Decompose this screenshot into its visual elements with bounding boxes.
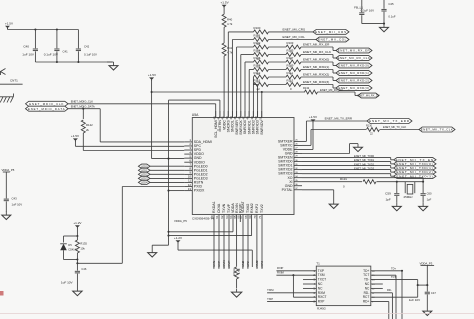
node junction: [292, 274, 294, 276]
svg-text:TXP: TXP: [318, 269, 324, 273]
svg-text:ENET_MII_TXD3: ENET_MII_TXD3: [354, 167, 375, 171]
wire: [5, 174, 7, 198]
svg-text:ENET_MII_RX_CLK: ENET_MII_RX_CLK: [338, 56, 371, 60]
wire ENET_MII_TX_CLK: [302, 130, 366, 146]
net label TXIP: [267, 297, 273, 301]
resistor R122: [81, 120, 93, 133]
svg-text:R102: R102: [254, 41, 261, 45]
svg-text:RXP2: RXP2: [260, 261, 264, 269]
svg-text:10k: 10k: [80, 247, 85, 251]
svg-text:RXM2: RXM2: [250, 203, 254, 213]
wire ENET_MII_TXD(1): [302, 166, 394, 168]
wire: [301, 47, 336, 51]
svg-text:ENET_MII_RX_ER: ENET_MII_RX_ER: [303, 43, 330, 47]
capacitor C41: [44, 30, 68, 63]
net label ENET_MII_TX_ERR: [325, 117, 353, 121]
svg-text:C59: C59: [385, 191, 391, 195]
wire RXIM: [276, 274, 316, 276]
wire RD+: [371, 302, 389, 319]
op-amp U5 body: [192, 118, 294, 215]
net label ENET_MII_TXD2: [354, 162, 375, 166]
wire: [152, 80, 185, 159]
ground: [148, 249, 157, 257]
net label ENET_MDIO_CLK: [71, 100, 94, 104]
wire: [77, 260, 122, 264]
net tag ENET_MDIO: [26, 106, 69, 111]
net label ENET_MII_CRS: [283, 28, 306, 32]
svg-text:R101: R101: [254, 34, 261, 38]
wire: [168, 100, 170, 236]
wire: [303, 287, 316, 289]
wire MDC: [68, 104, 216, 118]
power +1V5 top: [221, 1, 230, 8]
svg-text:RXIP: RXIP: [277, 266, 283, 270]
wire TXIP: [267, 301, 316, 303]
net tag LED4: [138, 180, 150, 184]
net label ENET_MII_RXD(1): [303, 65, 329, 69]
svg-text:C40: C40: [23, 45, 29, 49]
resistor R107: [286, 56, 301, 68]
svg-text:RD-: RD-: [364, 291, 370, 295]
net tag ENET_MII_RXD(0): [336, 63, 372, 68]
wire ENET_MII_TXD(0): [302, 162, 394, 164]
wire ENET_MII_TX_ERR: [302, 121, 367, 141]
wire: [301, 62, 336, 66]
svg-text:+1.5V: +1.5V: [5, 22, 13, 26]
svg-text:R112: R112: [254, 79, 261, 83]
svg-text:TXVN: TXVN: [212, 261, 216, 269]
svg-text:RXP2: RXP2: [255, 204, 259, 213]
wire ENET_MII_RXD(0): [245, 62, 254, 118]
svg-text:R113: R113: [287, 79, 294, 83]
wire: [362, 23, 384, 25]
svg-text:ENET_MII_RXD(1): ENET_MII_RXD(1): [338, 71, 369, 75]
svg-text:RXVP: RXVP: [227, 261, 231, 269]
svg-text:D5: D5: [68, 243, 72, 247]
svg-text:R130: R130: [366, 124, 373, 127]
svg-text:ENET_MDIO_CLK: ENET_MDIO_CLK: [71, 100, 94, 104]
svg-text:RXCT: RXCT: [318, 295, 327, 299]
wire: [269, 76, 287, 78]
svg-text:CNT1: CNT1: [10, 79, 18, 83]
svg-text:ENET_MII_TXD1: ENET_MII_TXD1: [354, 158, 375, 162]
net tag ENET_MII_TXD(3): [394, 174, 436, 178]
ground: [329, 201, 338, 209]
resistor R41: [222, 43, 233, 56]
net tag ENET_MII_TXD(2): [394, 170, 436, 174]
svg-text:C46: C46: [81, 267, 86, 271]
wire: [418, 284, 428, 286]
wire RXM2: [255, 222, 259, 269]
svg-text:ENET_MII_RXD(2): ENET_MII_RXD(2): [303, 73, 329, 77]
svg-text:C45: C45: [388, 2, 394, 6]
wire: [269, 31, 314, 33]
ground: [423, 308, 432, 316]
capacitor C46: [61, 263, 87, 287]
wire: [64, 259, 78, 261]
svg-text:NC: NC: [365, 286, 370, 290]
svg-text:ENET_MII_RX_CLK: ENET_MII_RX_CLK: [303, 50, 332, 54]
ground: [2, 212, 11, 220]
wire: [302, 144, 358, 154]
wire: [82, 109, 84, 119]
svg-text:ENET_MII_TX_ERR: ENET_MII_TX_ERR: [325, 117, 353, 121]
ground: [231, 289, 241, 298]
node junction: [167, 158, 169, 192]
svg-text:ENET_MII_RXD(3): ENET_MII_RXD(3): [338, 86, 369, 90]
svg-text:TXV2: TXV2: [260, 204, 264, 213]
wire: [150, 181, 184, 183]
ground: [73, 288, 82, 296]
svg-text:TCT: TCT: [363, 273, 369, 277]
wire: [261, 92, 263, 118]
power +1V5 mid: [148, 73, 157, 80]
svg-text:RD-: RD-: [387, 288, 392, 292]
svg-text:R107: R107: [287, 56, 294, 60]
wire: [381, 0, 386, 24]
part label RJ45: [317, 306, 326, 310]
node junction: [76, 235, 78, 237]
svg-text:VDDA_P5: VDDA_P5: [2, 168, 15, 172]
svg-text:0.1uF 10V: 0.1uF 10V: [44, 53, 59, 57]
net label ENET_MII_TXD3: [354, 167, 375, 171]
net tag ENET_MII_CRS: [313, 30, 349, 35]
svg-text:TXCT: TXCT: [318, 278, 326, 282]
svg-text:LED4: LED4: [141, 181, 148, 185]
net label TXIM: [267, 288, 274, 292]
resistor R111: [286, 71, 301, 83]
resistor R103: [286, 41, 301, 53]
svg-text:R40: R40: [227, 18, 233, 22]
wire RCT: [371, 280, 418, 298]
capacitor C59: [385, 182, 399, 203]
power +1V5 left: [71, 134, 80, 141]
wire: [426, 267, 428, 292]
ground: [392, 203, 401, 211]
svg-text:C47: C47: [431, 291, 436, 295]
node junction: [82, 108, 84, 110]
node junction: [396, 181, 424, 183]
svg-text:+1.2V: +1.2V: [174, 236, 183, 240]
net label ENET_MII_RX_ER: [303, 43, 330, 47]
net tag LED3: [138, 176, 150, 180]
svg-text:C42: C42: [84, 45, 90, 49]
svg-text:T1: T1: [316, 262, 320, 266]
wire: [178, 243, 252, 267]
wire ENET_MII_COL: [232, 40, 253, 118]
wire: [301, 55, 336, 59]
wire: [303, 279, 316, 281]
svg-text:62: 62: [220, 215, 224, 219]
node junction: [417, 284, 419, 286]
resistor R110: [254, 71, 269, 83]
svg-text:R131: R131: [340, 177, 347, 181]
capacitor C43: [4, 196, 23, 212]
net tag ENET_MII_TX_ERR: [367, 119, 412, 124]
svg-text:LED0: LED0: [141, 164, 148, 168]
resistor R113: [286, 79, 301, 91]
svg-text:1uF 10V: 1uF 10V: [12, 203, 23, 207]
refdes U5A: [192, 113, 199, 117]
resistor R102: [254, 41, 269, 53]
svg-text:ENET_MII_RX_DV: ENET_MII_RX_DV: [320, 88, 343, 92]
wire RXP2: [260, 222, 264, 269]
net label RXIM: [277, 271, 284, 275]
wire RXVP: [227, 222, 231, 269]
wire: [169, 190, 185, 192]
wire RXVN: [222, 222, 226, 269]
svg-text:TXM2: TXM2: [241, 260, 245, 269]
net label ENET_MII_TX_CLK: [383, 125, 406, 129]
resistor R132: [303, 86, 318, 94]
svg-text:ENET_MII_TX_ERR: ENET_MII_TX_ERR: [369, 119, 410, 123]
wire ENET_MII_RXD(3): [254, 85, 258, 118]
net label ENET_MII_COL: [283, 35, 306, 39]
svg-text:RJ45G: RJ45G: [317, 306, 326, 310]
wire: [152, 236, 168, 246]
svg-text:67: 67: [239, 215, 243, 219]
svg-text:TXIM: TXIM: [267, 288, 274, 292]
svg-text:70: 70: [253, 215, 257, 219]
wire TXP2: [246, 222, 250, 269]
svg-text:4.7k: 4.7k: [227, 22, 233, 26]
svg-text:TXIP: TXIP: [267, 297, 273, 301]
off-page arrow: [1, 69, 6, 76]
net tag LED0: [138, 164, 150, 168]
svg-text:ENET_MII_COL: ENET_MII_COL: [283, 35, 306, 39]
svg-text:ENET_MII_RXD(0): ENET_MII_RXD(0): [338, 64, 369, 68]
wire: [64, 228, 78, 236]
svg-text:69: 69: [248, 215, 252, 219]
node junction: [426, 284, 428, 286]
node junction: [34, 28, 58, 30]
pins U5 top: [212, 111, 264, 138]
svg-text:0.1uF 10V: 0.1uF 10V: [84, 53, 97, 57]
wire TXVP: [217, 222, 221, 269]
wire: [150, 169, 184, 171]
svg-text:ENET_MII_CRS: ENET_MII_CRS: [315, 30, 347, 34]
resistor R133: [232, 222, 241, 288]
pins U5 bottom: [210, 201, 264, 222]
svg-text:R104: R104: [254, 49, 261, 53]
svg-text:ENET_MII_RXD(3): ENET_MII_RXD(3): [303, 80, 329, 84]
wire TD-: [371, 275, 396, 319]
svg-text:ENET_MII_TX_CLK: ENET_MII_TX_CLK: [421, 128, 453, 132]
svg-text:VDDAT: VDDAT: [241, 201, 245, 213]
wire: [269, 54, 287, 56]
power +1V5 right: [309, 115, 318, 122]
svg-text:TXVP: TXVP: [217, 261, 221, 269]
svg-text:TD-: TD-: [364, 278, 369, 282]
svg-text:ENET_MDIO_CLK: ENET_MDIO_CLK: [29, 102, 64, 106]
wire ENET_MII_TX_EN: [302, 158, 394, 160]
net tag ENET_MII_RXD(3): [336, 86, 372, 91]
svg-text:RXM2: RXM2: [255, 260, 259, 269]
resistor R100: [254, 26, 269, 38]
capacitor C45 label: [388, 2, 395, 18]
ground: [419, 203, 428, 211]
ground: [354, 144, 363, 152]
wire: [223, 7, 225, 14]
node junction: [167, 231, 169, 237]
net label RD-: [387, 288, 392, 292]
svg-text:1pF: 1pF: [427, 197, 432, 201]
net tag ENET_MII_RX_ER: [336, 48, 372, 53]
net label ENET_MII_TXD1: [354, 158, 375, 162]
svg-text:ENET_MDIO_DATA: ENET_MDIO_DATA: [28, 107, 66, 111]
resistor R112: [254, 79, 269, 91]
net tag ENET_MII_RX_DV: [357, 93, 379, 98]
wire: [371, 283, 383, 285]
wire ENET_MII_RX_DV row: [152, 91, 305, 93]
part number CXD9564GB: [192, 216, 214, 220]
svg-text:R132: R132: [303, 86, 310, 90]
wire: [269, 39, 317, 41]
svg-text:1uF 10V: 1uF 10V: [409, 298, 420, 302]
net tag ENET_MII_TXD(0): [394, 162, 436, 166]
pins U5 right: [278, 140, 302, 192]
svg-text:NC: NC: [318, 286, 323, 290]
svg-text:ENET_MII_RXD(1): ENET_MII_RXD(1): [303, 65, 329, 69]
wire: [223, 56, 225, 118]
svg-text:RXVN: RXVN: [222, 260, 226, 269]
wire TXIM: [267, 292, 316, 294]
net label RXIP: [277, 266, 283, 270]
wire ENET_MII_TXD(2): [302, 170, 394, 172]
wire: [269, 46, 287, 48]
net label TCT: [391, 275, 396, 279]
net label ENET_MII_RXD(0): [303, 58, 329, 62]
capacitor C44: [354, 6, 374, 24]
wire TD+: [371, 271, 402, 319]
svg-text:0.1uF 16V: 0.1uF 16V: [361, 9, 374, 13]
svg-text:RCT: RCT: [363, 295, 370, 299]
crystal X1 25MHz: [404, 182, 415, 199]
svg-text:ENET_MII_COL: ENET_MII_COL: [318, 38, 347, 42]
node junction: [151, 91, 153, 93]
svg-text:R122: R122: [86, 123, 93, 127]
wire: [83, 133, 184, 151]
svg-text:ENET_MII_TXD2: ENET_MII_TXD2: [354, 162, 375, 166]
net label VDDA_P5: [2, 168, 15, 174]
svg-text:RXDA1: RXDA1: [212, 201, 216, 213]
capacitor C42: [76, 30, 97, 63]
svg-text:TD+: TD+: [363, 269, 369, 273]
chassis ground: [0, 94, 14, 103]
power +1V2 bottom-left: [73, 221, 82, 228]
wire: [301, 70, 336, 74]
wire ENET_MII_RXD(1): [249, 70, 253, 118]
capacitor C60: [421, 182, 433, 203]
wire: [293, 275, 316, 297]
wire: [318, 92, 359, 96]
svg-text:RD+: RD+: [363, 300, 370, 304]
svg-text:C60: C60: [427, 191, 432, 195]
net tag ENET_MII_TXD(1): [394, 166, 436, 170]
wire: [269, 61, 287, 63]
node junction: [383, 23, 385, 25]
svg-text:22: 22: [257, 87, 261, 91]
svg-text:ENET_MII_TX_CLK: ENET_MII_TX_CLK: [383, 125, 406, 129]
net tag ENET_MII_TX_CLK: [419, 127, 455, 132]
transformer T1 body: [316, 266, 371, 306]
wire: [169, 100, 220, 117]
pins U5 left: [184, 138, 212, 193]
resistor R106: [254, 56, 269, 68]
svg-text:PXIDX: PXIDX: [194, 189, 205, 193]
wire XO: [302, 178, 423, 182]
net tag ENET_MII_COL: [316, 37, 349, 42]
wire: [35, 61, 112, 63]
wire XI: [302, 181, 362, 183]
svg-text:71: 71: [258, 215, 262, 219]
svg-text:0.1uF: 0.1uF: [388, 15, 395, 19]
wire: [75, 141, 184, 147]
net tag ENET_MDC: [26, 101, 69, 106]
wire ENET_MII_CRS: [228, 32, 253, 118]
wire rail2: [169, 222, 252, 236]
diode D5: [60, 236, 78, 260]
ground: [107, 62, 118, 70]
svg-text:NC: NC: [365, 282, 370, 286]
wire MDIO: [68, 109, 184, 142]
net label ENET_MII_TXD0: [354, 154, 375, 158]
wire: [377, 181, 424, 183]
wire ENET_MII_RX_ER: [237, 47, 254, 118]
wire: [150, 177, 184, 179]
svg-text:1pF: 1pF: [385, 197, 390, 201]
svg-text:R105: R105: [287, 49, 294, 53]
node junction: [401, 270, 403, 272]
svg-text:1uF 10V: 1uF 10V: [61, 280, 74, 284]
power +1V5 rail top-left: [5, 22, 13, 30]
svg-text:1.5k: 1.5k: [237, 268, 241, 274]
svg-text:R103: R103: [287, 41, 294, 45]
svg-text:R100: R100: [254, 26, 261, 30]
net label ENET_MII_RX_DV: [320, 88, 343, 92]
svg-text:60: 60: [210, 215, 214, 219]
svg-text:51: 51: [258, 116, 262, 120]
svg-text:TXVN: TXVN: [222, 203, 226, 213]
net label ENET_MII_RXD(2): [303, 73, 329, 77]
svg-text:PXTAL: PXTAL: [282, 188, 293, 192]
resistor R135: [75, 236, 87, 260]
svg-text:RXM: RXM: [318, 291, 325, 295]
svg-text:TCT: TCT: [391, 275, 396, 279]
wire: [371, 287, 383, 289]
node junction: [56, 61, 80, 63]
capacitor C47: [409, 291, 437, 308]
svg-text:TXM: TXM: [318, 273, 325, 277]
capacitor C40: [22, 30, 38, 63]
svg-text:R111: R111: [287, 71, 294, 75]
svg-text:ENET_MII_RX_ER: ENET_MII_RX_ER: [338, 49, 370, 53]
wire: [0, 291, 4, 296]
wire: [301, 77, 336, 81]
ground: [380, 24, 389, 32]
svg-text:R108: R108: [254, 64, 261, 68]
net label TD+: [391, 266, 396, 270]
connector CNT1 label: [0, 79, 23, 85]
svg-text:ENET_MII_CRS: ENET_MII_CRS: [283, 28, 306, 32]
svg-text:+1.5V: +1.5V: [221, 1, 230, 5]
svg-text:C43: C43: [12, 196, 18, 200]
wire TXVN: [212, 222, 216, 269]
svg-text:+1.5V: +1.5V: [148, 73, 157, 77]
svg-text:+1.5V: +1.5V: [309, 115, 318, 119]
net label ENET_MDIO_DATA: [71, 105, 95, 109]
resistor R104: [254, 49, 269, 61]
